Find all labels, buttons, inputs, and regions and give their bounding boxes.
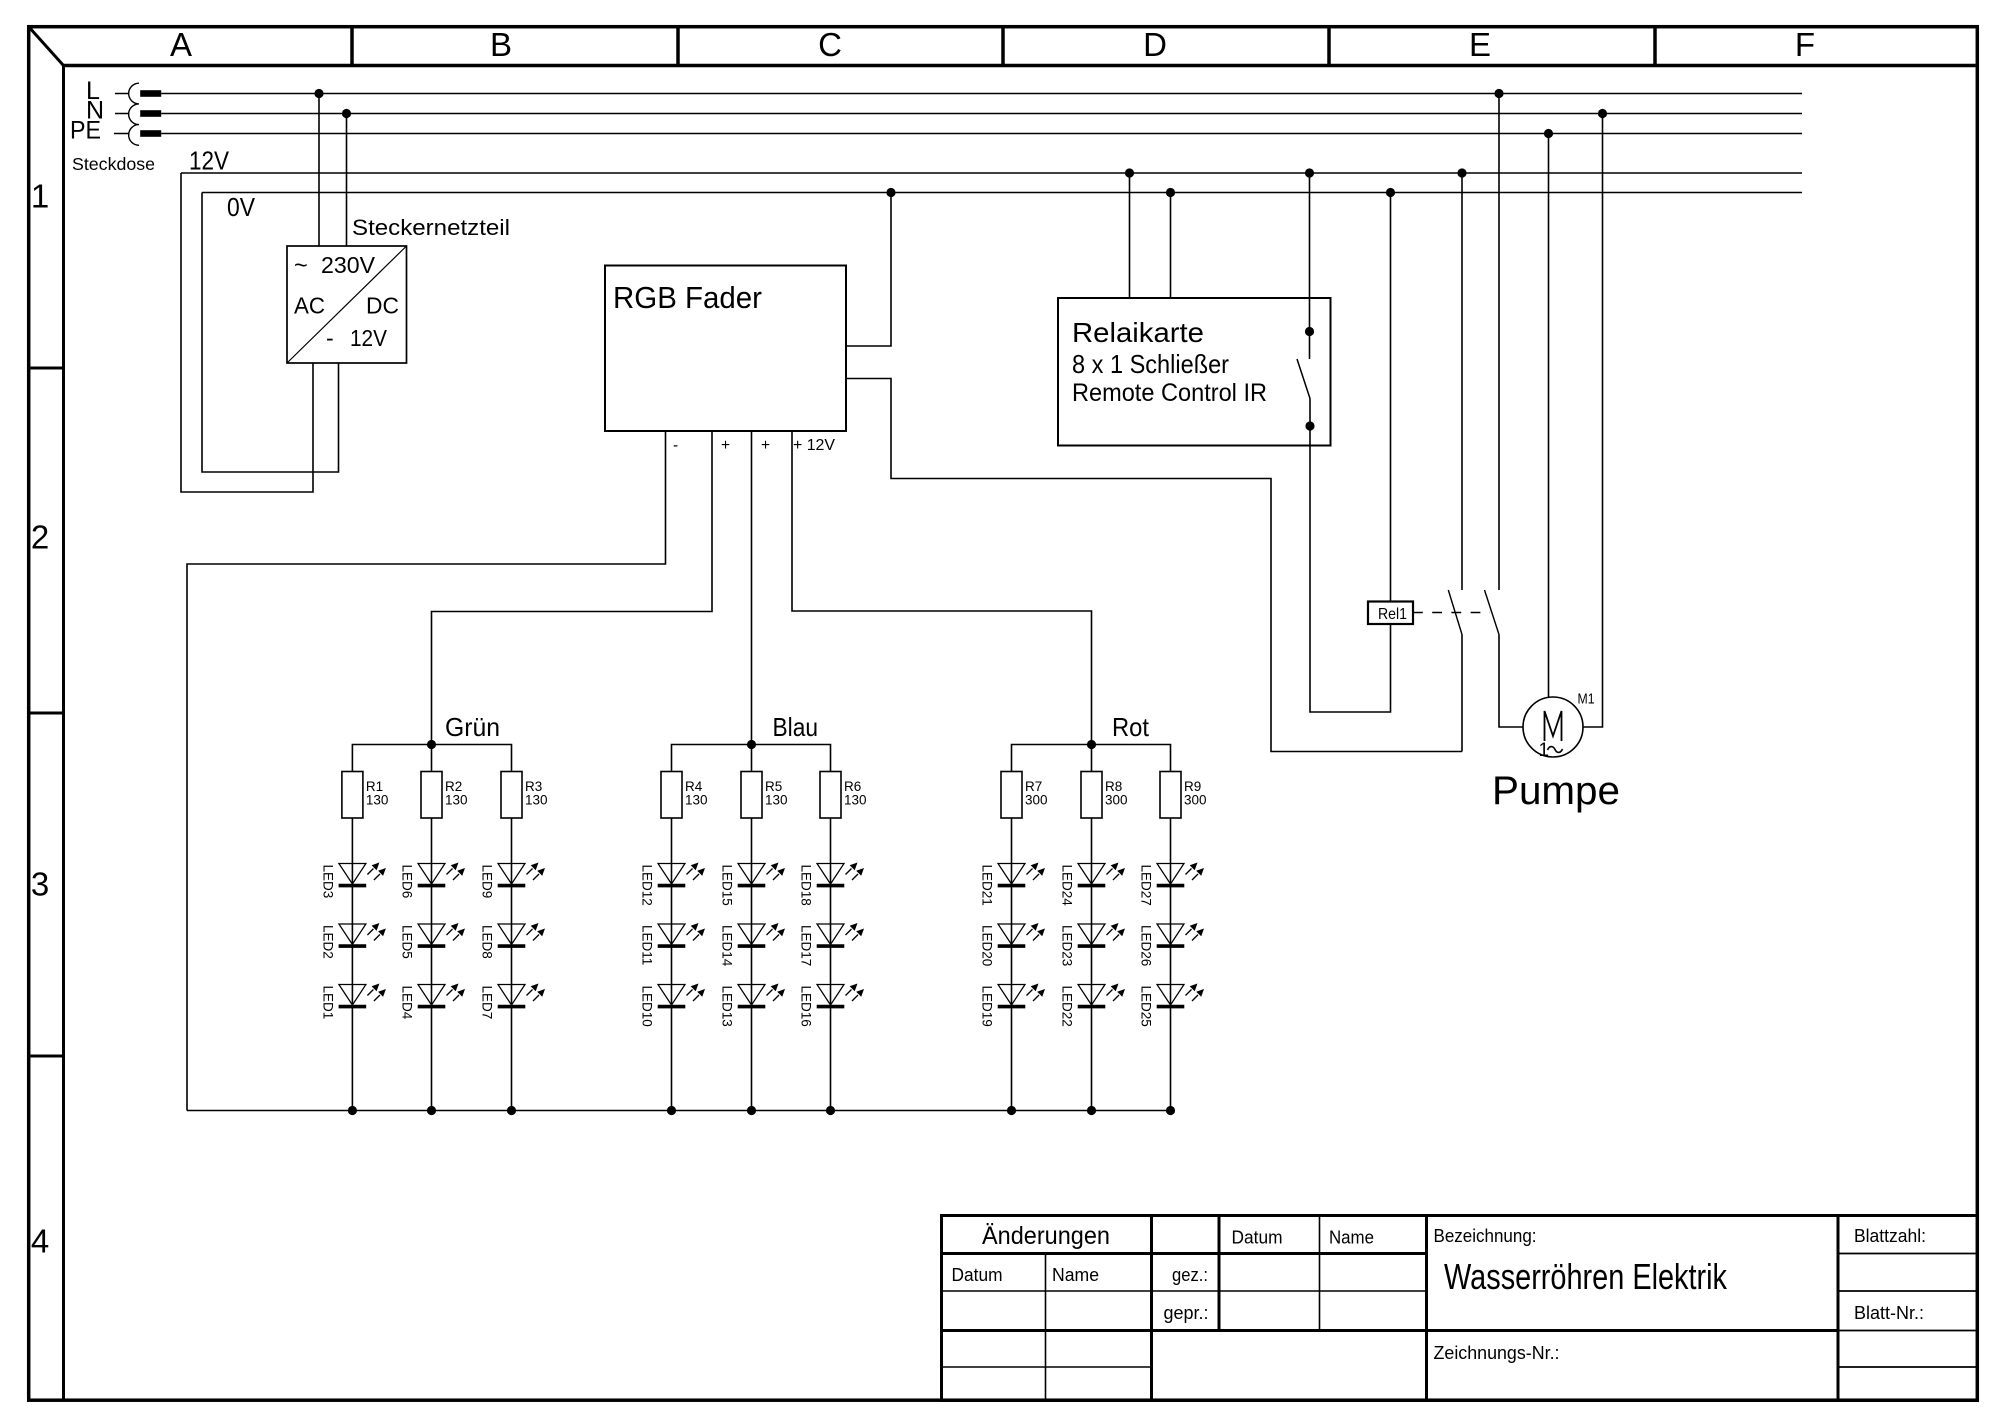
svg-text:Zeichnungs-Nr.:: Zeichnungs-Nr.: [1434, 1342, 1560, 1363]
svg-text:LED24: LED24 [1060, 865, 1075, 907]
svg-text:+: + [721, 437, 730, 454]
svg-text:130: 130 [445, 793, 468, 808]
svg-text:B: B [490, 26, 512, 63]
svg-text:gepr.:: gepr.: [1164, 1302, 1209, 1323]
wire: N to supply AC input [346, 114, 348, 247]
LED LED6 [400, 863, 466, 899]
junction: red string 2 to return bus [1087, 1106, 1096, 1115]
wire: fader minus output to LED return bus [187, 431, 666, 1111]
junction: blue string 3 to return bus [826, 1106, 835, 1115]
wire: LED string R2 column [431, 818, 433, 1111]
junction: green string 3 to return bus [507, 1106, 516, 1115]
power supply U1 Steckernetzteil (AC/DC converter) [287, 246, 407, 363]
junction on 0V (fader) [886, 188, 895, 197]
junction: blue string 1 to return bus [667, 1106, 676, 1115]
wire: 12V rail to Relaikarte [1129, 173, 1131, 298]
wire: fader +12V supply pin to relay contact S1 [846, 379, 1462, 752]
svg-text:1: 1 [1539, 740, 1550, 761]
module Relaikarte (relay card) [1058, 298, 1331, 446]
LED LED10 [640, 984, 706, 1027]
svg-text:E: E [1469, 26, 1491, 63]
resistor R5 (130) [741, 772, 762, 819]
svg-text:0V: 0V [227, 192, 256, 222]
svg-text:Rot: Rot [1112, 712, 1150, 742]
wire: green group feed bus [352, 745, 511, 772]
svg-text:C: C [818, 26, 842, 63]
junction: blue string 2 to return bus [747, 1106, 756, 1115]
wire: LED string R3 column [511, 818, 513, 1111]
svg-text:LED7: LED7 [480, 986, 495, 1020]
svg-text:LED15: LED15 [720, 865, 735, 906]
svg-text:~: ~ [294, 252, 308, 278]
junction on PE (motor frame) [1544, 129, 1553, 138]
wire: 12V rail to card switch [1309, 173, 1311, 359]
junction: green feed [427, 740, 436, 749]
svg-text:LED16: LED16 [799, 986, 814, 1027]
wire: motor to N [1583, 114, 1603, 728]
svg-text:+ 12V: + 12V [793, 437, 836, 454]
svg-text:300: 300 [1105, 793, 1128, 808]
resistor R6 (130) [820, 772, 841, 819]
LED LED18 [799, 863, 865, 906]
svg-text:LED13: LED13 [720, 986, 735, 1027]
junction: green string 2 to return bus [427, 1106, 436, 1115]
svg-text:8 x 1 Schließer: 8 x 1 Schließer [1072, 349, 1229, 379]
LED LED9 [480, 863, 546, 899]
svg-text:130: 130 [366, 793, 389, 808]
svg-text:DC: DC [366, 293, 399, 319]
svg-text:300: 300 [1025, 793, 1048, 808]
junction on L (supply input) [314, 89, 323, 98]
LED LED1 [320, 984, 386, 1020]
wire: 12V rail to relay contact S1 [1461, 173, 1463, 590]
svg-text:Wasserröhren Elektrik: Wasserröhren Elektrik [1444, 1256, 1728, 1297]
wire: supply 0V output loop [202, 193, 339, 473]
wire: LED string R8 column [1091, 818, 1093, 1111]
wire: L to relay contact S2 [1498, 94, 1500, 591]
svg-text:LED27: LED27 [1139, 865, 1154, 906]
svg-text:Name: Name [1052, 1264, 1099, 1285]
junction on N (supply input) [342, 109, 351, 118]
svg-text:3: 3 [31, 866, 49, 903]
junction: red string 3 to return bus [1166, 1106, 1175, 1115]
wire: LED string R7 column [1011, 818, 1013, 1111]
switch contact in Relaikarte [1297, 359, 1310, 399]
svg-text:12V: 12V [189, 146, 230, 176]
svg-text:Pumpe: Pumpe [1492, 769, 1620, 813]
LED LED16 [799, 984, 865, 1027]
wire: relay contact S1 to fader supply [1461, 635, 1463, 752]
wire: LED string R5 column [751, 818, 753, 1111]
junction on 0V (relay coil) [1386, 188, 1395, 197]
svg-text:130: 130 [765, 793, 788, 808]
svg-text:LED4: LED4 [400, 986, 415, 1020]
svg-text:LED3: LED3 [320, 865, 335, 899]
svg-text:PE: PE [70, 117, 101, 145]
wire: fader 0V pin to 0V rail [846, 193, 891, 347]
LED LED25 [1139, 984, 1205, 1027]
resistor R2 (130) [421, 772, 442, 819]
LED LED23 [1060, 923, 1126, 966]
svg-text:LED17: LED17 [799, 925, 814, 966]
svg-text:300: 300 [1184, 793, 1207, 808]
relay contact S2 blade [1485, 590, 1500, 635]
wire: PE to motor [1548, 134, 1550, 698]
svg-text:2: 2 [31, 519, 49, 556]
junction on N (motor return) [1598, 109, 1607, 118]
resistor R8 (300) [1081, 772, 1102, 819]
svg-text:LED22: LED22 [1060, 986, 1075, 1027]
svg-text:Steckernetzteil: Steckernetzteil [352, 215, 510, 240]
wire: 0V rail to Relaikarte [1170, 193, 1172, 299]
resistor R3 (130) [501, 772, 522, 819]
wire: fader blue output [751, 431, 753, 745]
junction on 12V (relay card switch feed) [1305, 168, 1314, 177]
svg-text:Relaikarte: Relaikarte [1072, 317, 1204, 348]
svg-text:AC: AC [294, 293, 325, 319]
wire: blue group feed bus [672, 745, 831, 772]
relay contact S1 blade [1448, 590, 1462, 635]
LED LED13 [720, 984, 786, 1027]
svg-text:Steckdose: Steckdose [72, 154, 155, 174]
resistor R1 (130) [342, 772, 363, 819]
LED LED5 [400, 923, 466, 959]
LED LED22 [1060, 984, 1126, 1027]
title block [942, 1216, 1978, 1401]
svg-text:LED11: LED11 [640, 925, 655, 965]
LED LED26 [1139, 923, 1205, 966]
wire: fader red output [792, 431, 1092, 745]
junction: card switch top terminal [1305, 327, 1314, 336]
svg-text:Datum: Datum [1232, 1227, 1283, 1248]
svg-text:LED2: LED2 [320, 925, 335, 959]
relay coil Rel1 [1368, 602, 1413, 625]
svg-text:RGB Fader: RGB Fader [613, 280, 762, 315]
svg-text:Bezeichnung:: Bezeichnung: [1434, 1225, 1537, 1246]
resistor R9 (300) [1160, 772, 1181, 819]
resistor R4 (130) [661, 772, 682, 819]
wire: card switch output to relay coil [1310, 399, 1391, 713]
LED LED19 [980, 984, 1046, 1027]
svg-text:LED23: LED23 [1060, 925, 1075, 966]
module RGB Fader [605, 266, 846, 432]
socket Steckdose (mains outlet) [114, 94, 129, 134]
svg-text:12V: 12V [350, 325, 388, 351]
svg-text:130: 130 [844, 793, 867, 808]
svg-text:LED14: LED14 [720, 925, 735, 967]
LED LED14 [720, 923, 786, 967]
LED LED21 [980, 863, 1046, 906]
wire: LED string R1 column [351, 818, 353, 1111]
svg-text:-: - [673, 437, 678, 454]
svg-text:Name: Name [1329, 1227, 1374, 1248]
svg-text:LED9: LED9 [480, 865, 495, 899]
LED LED8 [480, 923, 546, 959]
svg-text:Datum: Datum [952, 1264, 1003, 1285]
svg-text:LED6: LED6 [400, 865, 415, 899]
svg-text:LED5: LED5 [400, 925, 415, 959]
wire: red group feed bus [1012, 745, 1171, 772]
svg-text:Blattzahl:: Blattzahl: [1854, 1225, 1926, 1246]
svg-text:130: 130 [525, 793, 548, 808]
LED LED3 [320, 863, 386, 899]
wire PE [161, 133, 1802, 135]
svg-text:M1: M1 [1578, 691, 1595, 708]
LED LED4 [400, 984, 466, 1020]
junction: green string 1 to return bus [348, 1106, 357, 1115]
wire 12V rail [181, 172, 1802, 174]
svg-text:D: D [1143, 26, 1167, 63]
LED LED2 [320, 923, 386, 959]
wire L [161, 93, 1802, 95]
LED LED12 [640, 863, 706, 906]
wire: supply +12V output loop [181, 173, 313, 492]
title block inner lines [1150, 1216, 1153, 1401]
svg-text:gez.:: gez.: [1172, 1264, 1208, 1285]
junction on 0V (Relaikarte supply) [1166, 188, 1175, 197]
LED LED17 [799, 923, 865, 966]
wire N [161, 113, 1802, 115]
wire: L to supply AC input [318, 94, 320, 247]
LED LED20 [980, 923, 1046, 966]
svg-text:Remote Control IR: Remote Control IR [1072, 379, 1267, 407]
wire 0V rail [202, 192, 1802, 194]
junction on 12V (Relaikarte supply) [1125, 168, 1134, 177]
mechanical linkage Rel1 (dashed) [1413, 612, 1490, 614]
svg-text:Änderungen: Änderungen [982, 1222, 1110, 1250]
svg-text:1: 1 [31, 178, 49, 215]
LED LED27 [1139, 863, 1205, 906]
svg-text:Blau: Blau [773, 712, 819, 742]
svg-text:LED25: LED25 [1139, 986, 1154, 1027]
svg-text:Grün: Grün [445, 712, 500, 742]
svg-text:+: + [761, 437, 770, 454]
svg-text:LED21: LED21 [980, 865, 995, 906]
resistor R7 (300) [1001, 772, 1022, 819]
svg-text:LED26: LED26 [1139, 925, 1154, 966]
svg-text:LED12: LED12 [640, 865, 655, 906]
svg-text:LED19: LED19 [980, 986, 995, 1027]
svg-text:A: A [170, 26, 192, 63]
wire: LED string R6 column [830, 818, 832, 1111]
wire: LED string R9 column [1170, 818, 1172, 1111]
svg-text:-: - [326, 325, 334, 351]
LED LED15 [720, 863, 786, 906]
wire: LED cathode return bus [187, 1110, 1171, 1112]
wire: fader green output [432, 431, 713, 745]
svg-text:LED1: LED1 [320, 986, 335, 1020]
wire: 0V rail to relay coil Rel1 [1390, 193, 1392, 602]
junction: red string 1 to return bus [1007, 1106, 1016, 1115]
LED LED11 [640, 923, 706, 965]
junction on L (relay contact S2) [1494, 89, 1503, 98]
wire: LED string R4 column [671, 818, 673, 1111]
svg-text:F: F [1795, 26, 1815, 63]
junction: blue feed [747, 740, 756, 749]
svg-text:Blatt-Nr.:: Blatt-Nr.: [1854, 1302, 1924, 1323]
svg-text:LED18: LED18 [799, 865, 814, 906]
motor M1 [1523, 697, 1583, 757]
svg-text:Rel1: Rel1 [1378, 606, 1407, 623]
svg-text:130: 130 [685, 793, 708, 808]
junction: card switch bottom terminal [1305, 421, 1314, 430]
junction: red feed [1087, 740, 1096, 749]
svg-text:LED20: LED20 [980, 925, 995, 966]
svg-text:4: 4 [31, 1223, 49, 1260]
junction on 12V (relay contact S1) [1457, 168, 1466, 177]
svg-text:LED8: LED8 [480, 925, 495, 959]
wire: relay contact S2 to motor [1499, 635, 1523, 728]
svg-text:LED10: LED10 [640, 986, 655, 1027]
LED LED7 [480, 984, 546, 1020]
LED LED24 [1060, 863, 1126, 907]
svg-text:230V: 230V [321, 252, 375, 278]
